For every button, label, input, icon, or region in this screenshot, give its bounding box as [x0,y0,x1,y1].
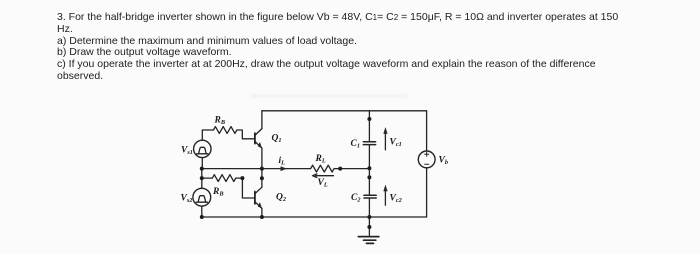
wire Q2 emitter to bottom rail [261,208,263,217]
junction node cap mid upper [367,166,371,170]
arrow Vc1 [384,128,388,150]
junction node RB2 right [240,176,244,180]
junction node Q1 emitter [260,167,264,171]
junction node ground stub [367,225,371,229]
junction node RB2 left [200,176,204,180]
wire load line left [202,168,311,170]
wire C2 to bottom rail [368,198,370,217]
wire RB1 left lead [202,130,213,140]
svg-text:RB: RB [212,187,224,198]
wire RB2 right lead to Q2 base [236,178,255,198]
transistor Q1 [255,129,262,149]
resistor RB2 [212,175,235,182]
svg-text:C2: C2 [351,193,361,204]
svg-text:Q1: Q1 [272,134,282,145]
wire collector Q1 to top rail [261,111,263,129]
svg-text:Vs1: Vs1 [181,146,193,157]
wire right vertical upper [426,111,428,151]
faint scan smudge [251,95,407,97]
arrow Vc2 [384,185,388,205]
ground [358,217,378,243]
svg-text:RB: RB [214,116,226,127]
wire RB2 left lead [202,177,213,179]
wire left column to Vs2 [201,169,203,189]
junction node cap mid lower [367,175,371,179]
junction node RL right [338,167,342,171]
junction node bottom rail left [200,215,204,219]
svg-text:Q2: Q2 [276,193,286,204]
svg-text:iL: iL [279,156,286,167]
resistor RB1 [213,127,236,134]
wire Q2 collector to load node [261,169,263,188]
capacitor C1 [363,142,375,145]
wire right vertical lower [426,168,428,217]
source Vs1 [194,140,211,157]
wire capacitor branch upper [368,111,370,142]
svg-text:RL: RL [315,154,326,165]
junction node below top rail [367,117,371,121]
current arrow iL [281,167,287,171]
wire Vs1 bottom to load line [201,158,203,169]
svg-text:Vs2: Vs2 [181,194,193,205]
source Vs2 [193,188,211,206]
wire emitter Q1 to load node [261,148,263,168]
svg-text:Vc1: Vc1 [390,138,402,149]
svg-text:C1: C1 [351,139,361,150]
junction node load line left [200,167,204,171]
arrow VL [313,174,334,178]
svg-text:Vb: Vb [439,156,449,167]
wire C1 to load node [368,145,370,195]
capacitor C2 [364,195,376,198]
svg-text:VL: VL [318,178,328,189]
voltage source Vb [418,151,435,168]
wire bottom rail [202,216,427,218]
transistor Q2 [255,187,262,208]
svg-text:Vc2: Vc2 [390,194,402,205]
wire RB1 right lead to Q1 base [237,130,255,139]
junction node bottom rail Q2 [260,215,264,219]
junction node bottom rail ground [367,215,371,219]
resistor RL [311,165,334,172]
wire load line right [335,168,369,170]
wire Vs2 bottom to bottom rail [201,206,203,217]
junction node Q2 collector [260,176,264,180]
wire top rail [262,110,427,112]
